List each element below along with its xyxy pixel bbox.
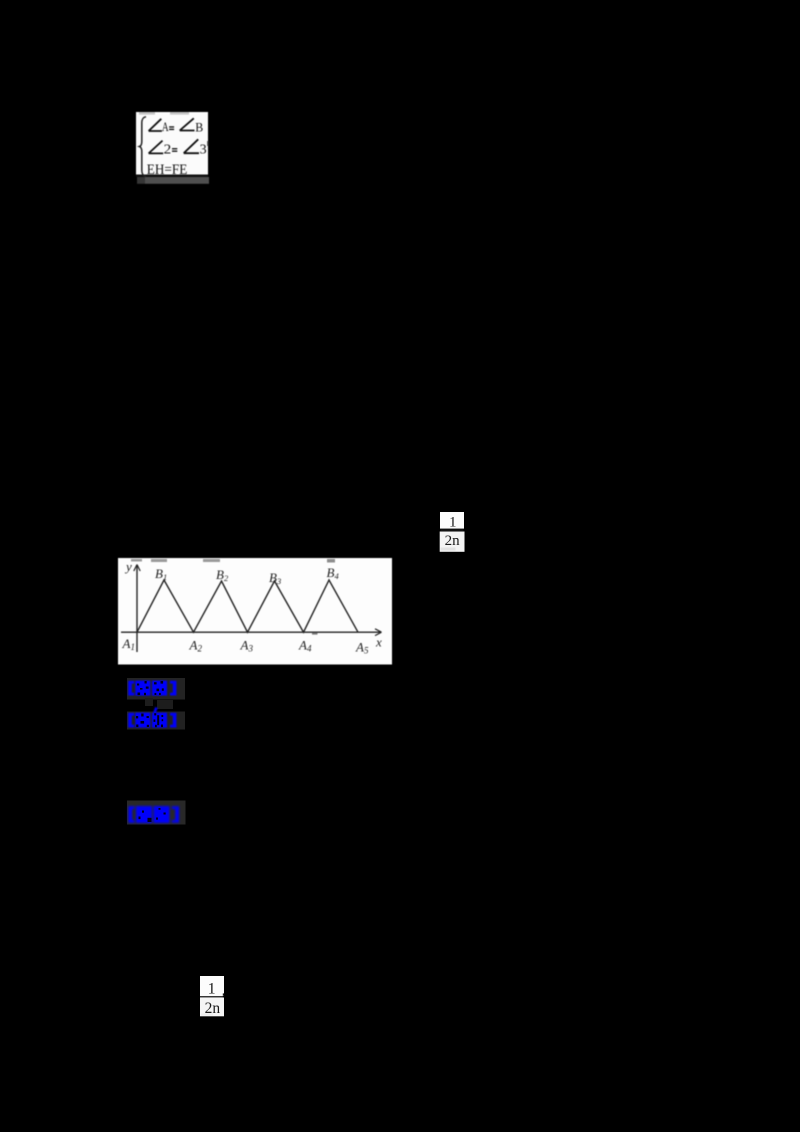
fraction 1/(2n) lower bbox=[199, 975, 226, 1018]
fraction bar bbox=[200, 996, 223, 997]
svg-text:B: B bbox=[195, 120, 203, 135]
blue tag jieda bbox=[125, 798, 187, 828]
svg-text:2n: 2n bbox=[205, 1000, 221, 1017]
white panel bbox=[136, 112, 208, 175]
svg-text:1: 1 bbox=[449, 515, 457, 531]
x axis bbox=[121, 631, 380, 633]
left curly brace bbox=[139, 117, 146, 177]
equals line2 bbox=[172, 148, 177, 149]
y axis bbox=[136, 566, 138, 652]
tick artifact bbox=[207, 141, 208, 146]
svg-text:x: x bbox=[375, 635, 382, 650]
bar end nub bbox=[223, 993, 224, 995]
white panel bbox=[118, 558, 392, 665]
zigzag triangles bbox=[137, 580, 358, 632]
angle symbol line1 b bbox=[180, 118, 195, 130]
svg-text:3: 3 bbox=[200, 142, 207, 157]
top edge smudge bbox=[139, 112, 155, 115]
svg-text:A: A bbox=[162, 119, 169, 134]
top edge smudges bbox=[131, 559, 142, 562]
faint remnants between tags bbox=[145, 698, 153, 706]
axis dash artifact bbox=[312, 633, 318, 635]
drop shadow bar bbox=[137, 177, 145, 184]
svg-text:EH=FE: EH=FE bbox=[147, 162, 188, 178]
angle symbol line2 b bbox=[184, 139, 199, 153]
svg-text:1: 1 bbox=[208, 981, 216, 998]
blue tag kaodian bbox=[125, 676, 187, 702]
svg-text:2n: 2n bbox=[445, 533, 461, 549]
fraction bar bbox=[441, 529, 464, 531]
numerator panel bbox=[200, 976, 224, 996]
angle symbol line1 a bbox=[149, 119, 162, 131]
denominator panel bbox=[440, 532, 465, 552]
blue tag fenxi bbox=[125, 706, 187, 732]
bottom black rule bbox=[136, 175, 208, 177]
svg-text:2: 2 bbox=[164, 142, 172, 157]
numerator panel bbox=[440, 512, 464, 529]
angle symbol line2 a bbox=[149, 141, 164, 154]
coordinate graph panel bbox=[117, 557, 393, 665]
denominator panel bbox=[200, 998, 224, 1017]
equals line1 bbox=[169, 126, 174, 127]
equation system box (brace with three equations) bbox=[136, 111, 210, 185]
svg-text:y: y bbox=[124, 559, 132, 574]
fraction 1/(2n) upper bbox=[439, 511, 466, 553]
